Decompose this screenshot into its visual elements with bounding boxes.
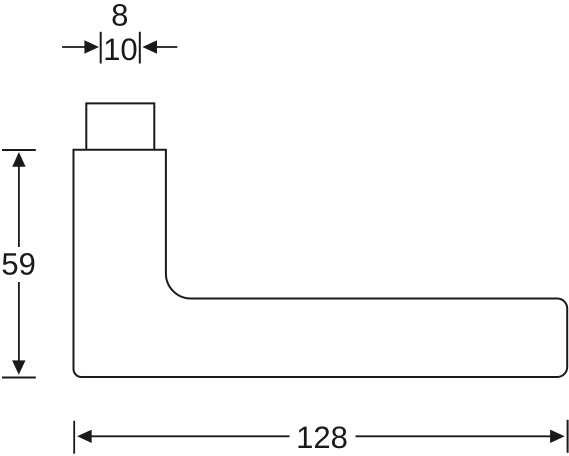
dimension 59: lower line segment <box>18 282 20 362</box>
dimension label 8 <box>113 4 128 26</box>
dimension 128: left line segment <box>91 435 290 437</box>
dimension 10: right leader line <box>156 46 177 48</box>
dimension 59: bottom arrowhead (points down) <box>12 360 25 374</box>
dimension 128: left arrowhead (points left) <box>77 430 92 443</box>
dimension 128: right extension tick <box>567 420 569 453</box>
handle body and lever outline <box>74 150 568 377</box>
dimension 59: top arrowhead (points up) <box>12 152 25 167</box>
dimension 10: right extension bar <box>139 32 141 64</box>
dimension 128: right line segment <box>356 435 552 437</box>
dimension 10: left arrowhead (points right) <box>84 40 99 53</box>
dimension 10: left extension bar <box>100 32 102 64</box>
handle neck (spindle boss) <box>86 103 154 149</box>
dimension label 59 <box>3 253 35 275</box>
dimension 10: right arrowhead (points left) <box>142 40 157 53</box>
dimension 59: top tick <box>2 149 36 151</box>
dimension label 10 <box>106 38 137 60</box>
dimension 10: left leader line <box>62 46 85 48</box>
dimension label 128 <box>299 426 347 448</box>
dimension 59: upper line segment <box>18 164 20 247</box>
dimension 59: bottom tick <box>2 377 36 379</box>
dimension 128: left extension tick <box>73 421 75 454</box>
dimension 128: right arrowhead (points right) <box>550 430 565 443</box>
